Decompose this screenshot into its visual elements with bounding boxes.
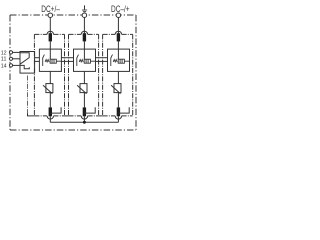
wire varistor to lower disconnector bbox=[83, 93, 85, 108]
lower disconnector dome M3 bbox=[115, 116, 121, 119]
connector between module enclosures bottom bbox=[65, 115, 69, 117]
wire SCI to varistor bbox=[83, 71, 85, 83]
wire disconnector to SCI box bbox=[117, 41, 119, 49]
SCI switch box U1 bbox=[39, 49, 61, 71]
lower disconnector dome M2 bbox=[81, 116, 87, 119]
terminal DC-/+ bbox=[116, 13, 121, 18]
FM linkage dashed drop line bbox=[27, 76, 29, 114]
wire into SCI symbol bbox=[49, 49, 51, 59]
wire node to upper disconnector bbox=[83, 17, 85, 33]
SCI switch box U2 bbox=[74, 49, 96, 71]
star point bus bbox=[50, 121, 118, 123]
module 2 dashed enclosure bbox=[69, 34, 99, 116]
varistor R1 bbox=[43, 84, 53, 94]
FM contact 12 line bbox=[20, 53, 29, 58]
terminal 14 bbox=[9, 64, 12, 67]
terminal DC+/- bbox=[48, 13, 53, 18]
upper disconnector dome M3 bbox=[115, 31, 121, 34]
upper disconnector dome M1 bbox=[47, 31, 53, 34]
wire to star bus bbox=[49, 116, 51, 122]
terminal earth bbox=[82, 13, 87, 18]
junction dot star point bbox=[83, 121, 86, 124]
wire into SCI symbol bbox=[117, 49, 119, 59]
mechanical linkage double line U1 to U2 bbox=[61, 57, 73, 59]
wire to star bus bbox=[83, 116, 85, 122]
wire node to upper disconnector bbox=[117, 17, 119, 33]
wire terminal 14 bbox=[13, 64, 20, 66]
terminal 11 bbox=[9, 57, 12, 60]
wire disconnector to SCI box bbox=[49, 41, 51, 49]
upper disconnector bar M3 bbox=[117, 33, 120, 41]
upper disconnector bar M2 bbox=[83, 33, 86, 41]
wire terminal 12 bbox=[13, 51, 20, 53]
varistor R3 bbox=[111, 84, 121, 94]
mechanical linkage double line U2 to U3 bbox=[96, 57, 108, 59]
SCI switch symbol U2 bbox=[77, 55, 96, 66]
module 3 dashed enclosure bbox=[103, 34, 133, 116]
wire to star bus bbox=[117, 116, 119, 122]
wire node to upper disconnector bbox=[49, 17, 51, 33]
upper disconnector bar M1 bbox=[49, 33, 52, 41]
svg-text:12: 12 bbox=[1, 50, 7, 56]
upper disconnector dome M2 bbox=[81, 31, 87, 34]
lower disconnector bar M2 bbox=[83, 107, 86, 116]
short-circuit hook path M3 bbox=[118, 107, 129, 113]
lower disconnector bar M1 bbox=[49, 107, 52, 116]
mechanical linkage double line FM to U1 bbox=[35, 57, 40, 59]
ground bbox=[82, 5, 87, 12]
FM remote contact box bbox=[20, 52, 35, 74]
lower disconnector bar M3 bbox=[117, 107, 120, 116]
wire disconnector to SCI box bbox=[83, 41, 85, 49]
SCI switch symbol U1 bbox=[43, 55, 62, 66]
wire SCI to varistor bbox=[49, 71, 51, 83]
terminal 12 bbox=[9, 51, 12, 54]
svg-text:14: 14 bbox=[1, 63, 7, 69]
wire varistor to lower disconnector bbox=[117, 93, 119, 108]
short-circuit hook path M1 bbox=[50, 107, 61, 113]
wire varistor to lower disconnector bbox=[49, 93, 51, 108]
svg-text:11: 11 bbox=[1, 57, 7, 63]
wire into SCI symbol bbox=[83, 49, 85, 59]
short-circuit hook path M2 bbox=[84, 107, 95, 113]
module 1 dashed enclosure bbox=[34, 34, 64, 116]
wire SCI to varistor bbox=[117, 71, 119, 83]
FM contact blade bbox=[20, 58, 29, 65]
varistor R2 bbox=[77, 84, 87, 94]
frame (dash-dot device boundary) bbox=[10, 15, 136, 130]
SCI switch box U3 bbox=[108, 49, 130, 71]
FM contact 14 line bbox=[20, 65, 29, 68]
wire terminal 11 bbox=[13, 58, 20, 60]
SCI switch symbol U3 bbox=[111, 55, 130, 66]
lower disconnector dome M1 bbox=[47, 116, 53, 119]
